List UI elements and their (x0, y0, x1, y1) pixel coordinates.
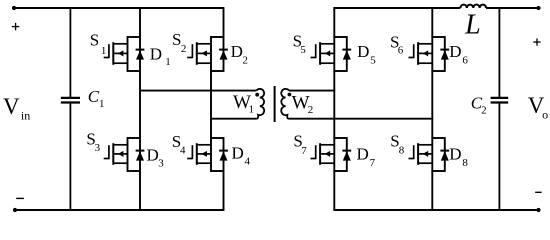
svg-text:4: 4 (245, 156, 251, 168)
svg-text:1: 1 (99, 98, 105, 110)
svg-text:1: 1 (249, 104, 255, 116)
svg-text:D: D (232, 143, 244, 162)
svg-text:8: 8 (462, 157, 468, 169)
svg-text:2: 2 (242, 54, 248, 66)
svg-text:C: C (88, 87, 100, 106)
svg-text:L: L (464, 10, 481, 41)
svg-text:7: 7 (370, 157, 376, 169)
svg-text:1: 1 (101, 45, 107, 57)
svg-text:V: V (3, 94, 20, 119)
svg-text:4: 4 (180, 144, 186, 156)
svg-text:D: D (357, 144, 369, 163)
svg-text:D: D (449, 42, 461, 61)
svg-text:6: 6 (398, 45, 404, 57)
svg-text:D: D (357, 42, 369, 61)
svg-text:3: 3 (158, 158, 164, 170)
svg-text:8: 8 (399, 145, 405, 157)
svg-text:D: D (449, 144, 461, 163)
svg-text:2: 2 (181, 43, 187, 55)
svg-text:D: D (231, 42, 243, 61)
svg-text:7: 7 (301, 145, 307, 157)
svg-text:1: 1 (165, 56, 171, 68)
svg-text:3: 3 (95, 142, 101, 154)
svg-text:2: 2 (481, 105, 487, 117)
svg-text:S: S (90, 31, 99, 50)
svg-text:6: 6 (462, 54, 468, 66)
svg-text:D: D (147, 145, 159, 164)
svg-text:in: in (21, 109, 30, 123)
svg-text:2: 2 (308, 104, 314, 116)
svg-text:5: 5 (370, 54, 376, 66)
svg-text:5: 5 (300, 44, 306, 56)
svg-text:o: o (542, 108, 548, 122)
svg-text:D: D (150, 45, 162, 64)
